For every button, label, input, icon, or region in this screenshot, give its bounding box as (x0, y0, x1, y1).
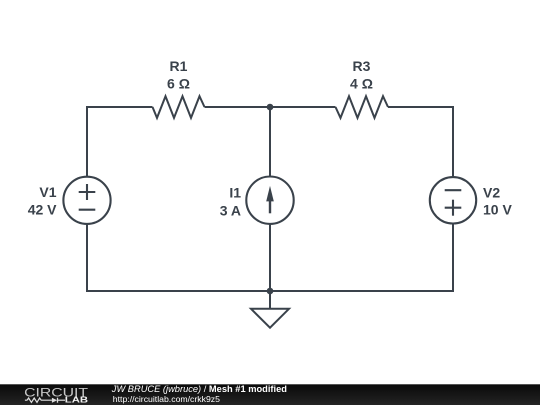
svg-text:V1: V1 (39, 184, 56, 200)
footer black bar (0, 384, 540, 405)
logo diode bar (57, 398, 59, 403)
wire top-middle (R1 to R3 through node) (205, 106, 336, 108)
wire bottom (V1 bottom to V2 bottom) (87, 224, 453, 291)
svg-text:10 V: 10 V (483, 202, 512, 218)
wire middle top (node to I1) (269, 107, 271, 177)
logo wire and resistor squiggle (25, 398, 52, 402)
svg-text:4 Ω: 4 Ω (350, 76, 373, 92)
ground symbol triangle (251, 309, 289, 328)
svg-text:6 Ω: 6 Ω (167, 76, 190, 92)
resistor R1 zigzag (153, 96, 205, 118)
svg-text:JW BRUCE (jwbruce) / Mesh #1 m: JW BRUCE (jwbruce) / Mesh #1 modified (111, 384, 287, 394)
svg-text:http://circuitlab.com/crkk9z5: http://circuitlab.com/crkk9z5 (113, 394, 220, 404)
V1 minus sign (79, 209, 96, 211)
svg-text:42 V: 42 V (28, 202, 57, 218)
voltage source V1 circle (63, 177, 110, 224)
V2 plus sign (445, 200, 462, 216)
wire top-right (R3 to V2 top corner) (388, 107, 453, 177)
svg-text:V2: V2 (483, 185, 500, 201)
logo wire to LAB (58, 399, 66, 401)
wire middle bottom (I1 to bottom node) (269, 224, 271, 291)
svg-text:3 A: 3 A (220, 202, 241, 218)
svg-text:R3: R3 (353, 58, 371, 74)
svg-text:LAB: LAB (65, 396, 89, 405)
wire top-left (V1 top corner to R1) (87, 107, 153, 177)
resistor R3 zigzag (336, 96, 389, 118)
node junction bottom (267, 288, 274, 295)
current source I1 circle (246, 177, 293, 224)
voltage source V2 circle (430, 177, 476, 223)
V2 minus sign (445, 189, 462, 191)
V1 plus sign (79, 184, 96, 200)
node junction top (267, 104, 274, 111)
svg-text:R1: R1 (170, 58, 188, 74)
ground stub wire (269, 291, 271, 309)
logo diode symbol (52, 398, 57, 403)
I1 arrow shaft (269, 200, 271, 214)
I1 arrowhead (266, 186, 274, 202)
svg-text:I1: I1 (229, 185, 241, 201)
